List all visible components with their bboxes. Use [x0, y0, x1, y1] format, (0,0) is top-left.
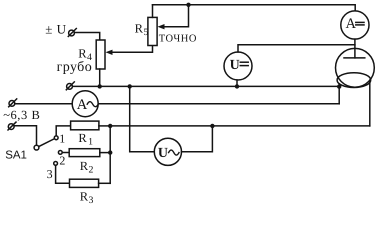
- wire: contact 3 to R3: [56, 166, 70, 184]
- svg-text:R5: R5: [135, 21, 149, 38]
- R5 wiper arrow: [158, 5, 189, 30]
- junction: U= bottom on bus: [235, 84, 239, 88]
- svg-text:A: A: [77, 97, 88, 113]
- wire: R2 right lead: [100, 152, 110, 154]
- wire: A= bottom to anode plate: [354, 39, 356, 58]
- svg-text:3: 3: [47, 167, 53, 181]
- switch SA1 common contact: [34, 145, 39, 150]
- svg-text:1: 1: [59, 131, 65, 145]
- terminal X3 (6.3V upper): [9, 99, 17, 107]
- svg-text:SA1: SA1: [5, 149, 27, 161]
- wire: resistor bank right vertical: [109, 126, 111, 183]
- R4 wiper arrow: [106, 46, 153, 56]
- svg-text:грубо: грубо: [57, 60, 93, 75]
- vacuum diode VL (envelope): [336, 48, 375, 87]
- junction: R2 right: [108, 150, 112, 154]
- svg-text:ТОЧНО: ТОЧНО: [159, 33, 197, 44]
- wire: main bus at y=86: [73, 85, 339, 87]
- anode plate: [344, 57, 365, 59]
- wire: R5 top lead: [152, 5, 154, 18]
- svg-text:R1: R1: [78, 131, 93, 147]
- svg-text:A: A: [346, 16, 357, 32]
- filament left leg: [338, 84, 340, 104]
- wire: U= top lead to anode node: [238, 45, 355, 52]
- wire: terminal X3 to ammeter A~: [15, 103, 72, 105]
- wire: bus branch down to U~ left: [130, 86, 155, 151]
- terminal X1 (±U input): [68, 29, 76, 37]
- voltmeter U~: [154, 138, 181, 165]
- switch contact 1: [54, 136, 58, 140]
- terminal X4 (6.3V lower): [8, 122, 16, 130]
- filament right leg: [369, 81, 371, 126]
- wire: R1 right lead: [99, 125, 110, 127]
- resistor R4 (rheostat, coarse): [96, 40, 105, 69]
- svg-text:U: U: [230, 58, 240, 73]
- junction: R4 bottom on bus: [98, 84, 102, 88]
- ammeter A=: [341, 11, 369, 39]
- wire: anode-load bus y=126 to filament right leg: [110, 125, 370, 127]
- wire: contact 1 to R1: [56, 126, 70, 136]
- svg-text:U: U: [158, 146, 168, 161]
- wire: terminal X1 to R4 top: [75, 33, 100, 41]
- resistor R5 (rheostat, fine): [148, 17, 157, 45]
- switch contact 2: [58, 151, 62, 155]
- resistor R1: [71, 121, 99, 130]
- wire: A~ right to filament left leg: [98, 103, 339, 105]
- wire: R3 right lead: [99, 182, 111, 184]
- ammeter A~: [72, 91, 98, 117]
- svg-text:R2: R2: [80, 159, 94, 175]
- svg-text:R3: R3: [80, 189, 94, 205]
- wire: contact 2 to R2: [62, 152, 69, 154]
- terminal X2 (below R4): [66, 82, 74, 90]
- svg-text:2: 2: [59, 154, 65, 168]
- junction: R5 wiper on top bus: [186, 3, 190, 7]
- switch SA1 arm: [39, 139, 55, 147]
- wire: U= bottom lead to bus: [236, 80, 238, 86]
- voltmeter U=: [224, 52, 252, 80]
- junction: bus to filament left leg: [337, 84, 341, 88]
- junction: U~ branch on bus: [128, 84, 132, 88]
- filament (cathode): [337, 73, 371, 88]
- resistor R2: [69, 149, 100, 157]
- wire: R4 bottom lead: [99, 69, 101, 86]
- resistor R3: [70, 179, 99, 187]
- switch contact 3: [54, 162, 58, 166]
- wire: top bus from R5 to ammeter A=: [153, 5, 356, 11]
- svg-text:~6,3 В: ~6,3 В: [3, 108, 40, 122]
- wire: terminal X4 to switch common: [14, 126, 36, 145]
- junction: R1 right: [108, 124, 112, 128]
- svg-text:± U: ± U: [45, 22, 66, 37]
- junction: U~ right branch: [210, 124, 214, 128]
- wire: U~ right up to bus y=126: [182, 126, 213, 152]
